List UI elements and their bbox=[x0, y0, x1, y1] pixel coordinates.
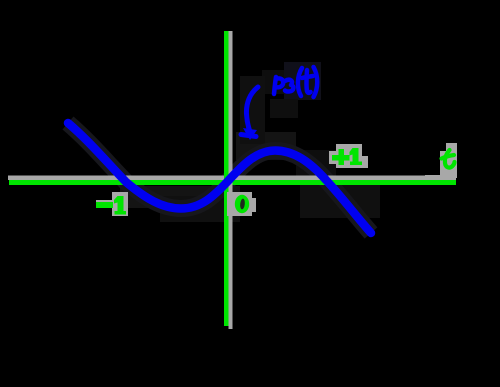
y-axis (green) bbox=[224, 31, 229, 326]
blue curve p3(t) bbox=[68, 123, 371, 233]
arrow from label to curve bbox=[241, 87, 258, 137]
label -1 bbox=[96, 196, 126, 215]
gray box behind label t bbox=[425, 143, 457, 178]
t stem bbox=[306, 70, 310, 93]
label 0 bbox=[235, 195, 249, 213]
p stem bbox=[274, 77, 276, 94]
label +1 bbox=[332, 148, 362, 165]
y-axis gray shadow bbox=[229, 31, 233, 329]
( bbox=[298, 68, 302, 96]
artifact dark blocks bbox=[120, 62, 380, 222]
curve halo bbox=[68, 123, 371, 233]
) bbox=[314, 67, 318, 97]
gray box behind label 0 bbox=[227, 192, 256, 216]
handwritten label p3(t) bbox=[274, 67, 317, 97]
x-axis (green) bbox=[9, 180, 456, 185]
p bowl bbox=[276, 78, 284, 87]
x-axis gray shadow bbox=[8, 176, 456, 181]
t bar bbox=[302, 76, 313, 78]
label t (script) bbox=[442, 150, 455, 168]
3 bbox=[285, 80, 293, 92]
gray box behind label -1 bbox=[96, 192, 128, 216]
gray box behind label +1 bbox=[329, 144, 368, 168]
